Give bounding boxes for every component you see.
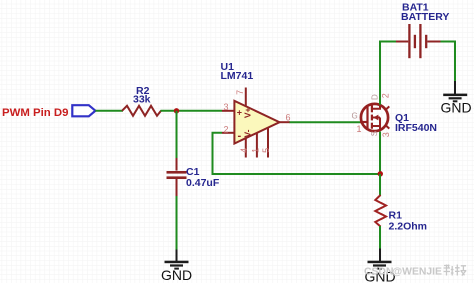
wire: R1 to GND <box>379 226 381 249</box>
svg-text:CSDN: CSDN <box>364 267 393 278</box>
U1 pin 7 <box>245 88 247 107</box>
Q1 drain connection <box>372 105 380 109</box>
svg-text:5: 5 <box>261 148 271 153</box>
wire: junction to C1 <box>176 111 178 159</box>
port PWM Pin D9 <box>2 105 95 119</box>
svg-text:D: D <box>370 94 379 100</box>
Q1 gate lead <box>360 121 368 123</box>
svg-text:0.47uF: 0.47uF <box>186 177 220 189</box>
wire: node to R1 <box>379 174 381 196</box>
wire: feedback U1 pin 2 to source node <box>213 133 381 174</box>
U1 pin 1 <box>256 133 258 158</box>
svg-text:BATTERY: BATTERY <box>401 11 449 23</box>
U1 pin 2 <box>222 132 234 134</box>
svg-text:GND: GND <box>161 267 192 283</box>
svg-text:1: 1 <box>250 148 260 153</box>
U1 pin 5 <box>267 128 269 158</box>
Q1 tick marks <box>386 106 390 109</box>
svg-text:2: 2 <box>224 125 229 135</box>
svg-text:LM741: LM741 <box>221 70 254 82</box>
Q1 source connection with body arrow <box>372 126 380 131</box>
svg-text:IRF540N: IRF540N <box>395 122 437 134</box>
Q1 channel segments <box>371 106 373 113</box>
svg-text:6: 6 <box>286 113 291 123</box>
svg-text:V-: V- <box>243 129 253 137</box>
wire: R2 to U1 pin 3 <box>161 110 223 112</box>
junction node R2/C1 <box>174 108 179 113</box>
svg-text:S: S <box>370 131 379 136</box>
wire: Q1 source to node <box>379 132 381 175</box>
junction node source/R1/feedback <box>378 171 383 176</box>
U1 pin 6 <box>280 121 291 123</box>
svg-text:1: 1 <box>357 124 362 134</box>
svg-text:33k: 33k <box>133 94 151 106</box>
capacitor C1 0.47uF <box>167 158 220 197</box>
svg-text:3: 3 <box>381 132 391 137</box>
ground GND below R1 <box>365 249 396 283</box>
wire: Q1 drain to battery <box>380 42 397 105</box>
battery BAT1 <box>396 2 449 59</box>
resistor R1 2.2Ohm <box>375 195 427 233</box>
svg-text:2.2Ohm: 2.2Ohm <box>389 221 428 233</box>
U1 body <box>234 101 279 144</box>
svg-text:4: 4 <box>239 148 249 153</box>
svg-text:G: G <box>352 111 358 120</box>
watermark <box>364 265 466 278</box>
svg-text:GND: GND <box>441 99 472 115</box>
svg-text:3: 3 <box>224 102 229 112</box>
wire: C1 to GND <box>176 196 178 250</box>
svg-text:PWM Pin D9: PWM Pin D9 <box>2 107 68 119</box>
svg-text:V+: V+ <box>243 107 253 118</box>
U1 pin 3 <box>222 110 234 112</box>
svg-text:7: 7 <box>235 90 245 95</box>
Q1 gate bar <box>366 107 368 128</box>
ground GND below C1 <box>161 250 192 283</box>
svg-text:-: - <box>238 130 242 142</box>
wire: port to R2 <box>95 110 123 112</box>
ground GND at battery <box>441 81 472 115</box>
wire: U1 output to Q1 gate <box>290 121 362 123</box>
U1 pin 4 <box>245 138 247 157</box>
resistor R2 33k <box>122 85 161 116</box>
svg-text:2: 2 <box>381 93 391 98</box>
wire: battery to GND <box>441 42 456 82</box>
svg-text:@WENJIE: @WENJIE <box>392 267 442 278</box>
op-amp U1 LM741 <box>221 61 291 158</box>
svg-text:+: + <box>237 108 242 118</box>
transistor Q1 IRF540N <box>352 93 438 137</box>
